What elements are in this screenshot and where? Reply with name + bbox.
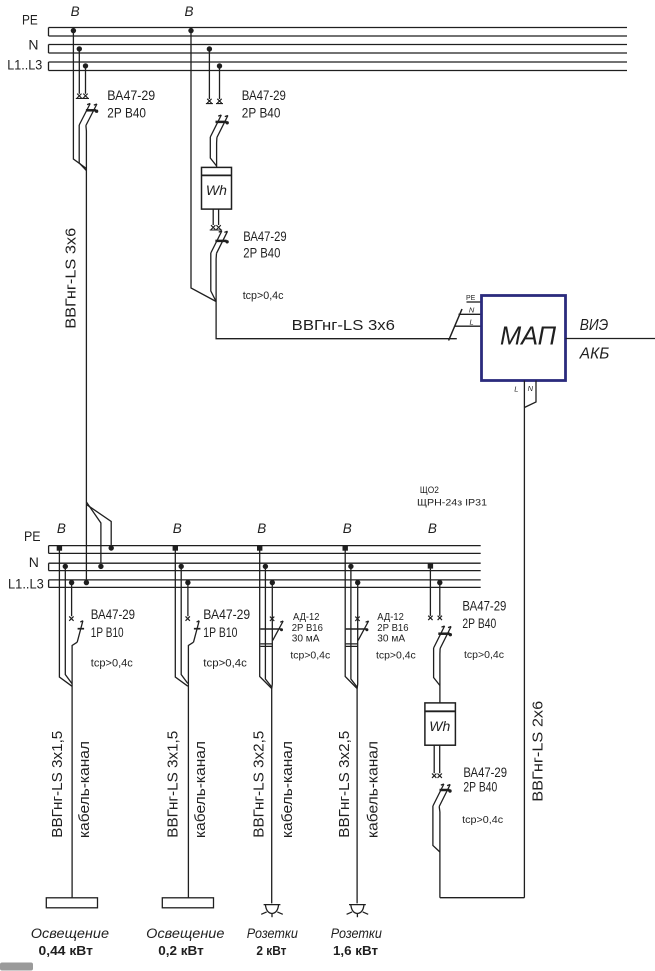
wire МАП to ВИЭ/АКБ (right) (566, 338, 655, 340)
svg-text:Розетки: Розетки (331, 925, 382, 941)
lower bus L1..L3 (double-line busbar) (49, 580, 481, 588)
wire QF9 output right / cable down (438, 807, 441, 898)
contact mark PI2 left (432, 774, 436, 778)
contact mark L drop 1 (82, 94, 89, 99)
svg-text:ВВГнг-LS 3х2,5: ВВГнг-LS 3х2,5 (251, 731, 267, 838)
wire QF3 output right (215, 253, 217, 301)
lower bus N (double-line busbar) (49, 563, 481, 570)
wire N conductor drop D (351, 566, 357, 687)
top bus L1..L3 (double-line busbar) (49, 62, 628, 71)
junction dot PE tap C (257, 545, 262, 550)
contact mark N drop 1 (76, 94, 83, 99)
junction dot L tap A (69, 580, 74, 585)
wire L stub drop A (71, 583, 73, 617)
svg-text:ВА47-29: ВА47-29 (203, 607, 250, 622)
wire N into МАП (459, 313, 482, 315)
wire QF8 output left (434, 648, 440, 686)
label Розетки 2 кВт (247, 925, 298, 958)
wire fan-out of incoming cable to lower bus (N branch) (86, 502, 101, 563)
wire L into МАП (455, 325, 482, 327)
panel label ЩО2 ЩРН-24з IP31 (417, 485, 487, 509)
cable fan-out slash at МАП input (449, 309, 462, 341)
wire L out of МАП bottom (long run to lower right) (523, 381, 525, 898)
svg-text:ВВГнг-LS 2х6: ВВГнг-LS 2х6 (530, 701, 546, 802)
wire meter output stub right (218, 209, 220, 225)
svg-text:tср>0,4с: tср>0,4с (243, 290, 284, 302)
svg-text:ВВГнг-LS 3х6: ВВГнг-LS 3х6 (292, 317, 395, 334)
label QF6 (290, 611, 330, 662)
svg-text:ЩРН-24з IР31: ЩРН-24з IР31 (417, 498, 487, 509)
contact mark L drop D (355, 617, 359, 621)
svg-text:N: N (469, 306, 475, 315)
svg-text:2Р В40: 2Р В40 (243, 246, 280, 261)
label QF4 (91, 607, 135, 670)
wire QF2 output right to meter (216, 138, 218, 168)
svg-text:N: N (29, 554, 39, 570)
wire QF1 output left (79, 125, 86, 171)
junction dot PE tap 2 (188, 28, 193, 33)
label QF2 (242, 88, 286, 121)
svg-text:L1..L3: L1..L3 (8, 575, 44, 591)
svg-text:ВА47-29: ВА47-29 (463, 765, 507, 780)
svg-text:Розетки: Розетки (247, 925, 298, 941)
svg-text:PE: PE (22, 12, 38, 28)
lower bus PE (double-line busbar) (49, 546, 481, 554)
wire QF5 output / cable to lamp (188, 642, 193, 898)
svg-text:Wh: Wh (206, 182, 227, 198)
wire QF4 output / cable to lamp (72, 642, 77, 898)
energy meter PI2 Wh (425, 703, 456, 745)
junction dot L tap 1 (83, 63, 88, 68)
svg-text:В: В (173, 521, 182, 536)
wire PE conductor drop 2 (191, 31, 216, 302)
circuit breaker QF5 ВА47-29 1Р В10 (194, 621, 201, 643)
junction dot PE tap A (57, 545, 62, 550)
circuit breaker QF8 ВА47-29 2Р В40 (434, 626, 452, 649)
svg-text:PE: PE (24, 528, 41, 544)
junction dot PE incoming (109, 545, 114, 550)
svg-text:ВВГнг-LS 3х6: ВВГнг-LS 3х6 (64, 228, 80, 329)
svg-text:1Р В10: 1Р В10 (91, 625, 124, 640)
svg-text:L: L (470, 318, 474, 327)
svg-text:L1..L3: L1..L3 (7, 57, 42, 73)
wire PE into МАП (467, 301, 482, 303)
svg-text:ВВГнг-LS 3х1,5: ВВГнг-LS 3х1,5 (50, 731, 66, 838)
svg-text:В: В (428, 521, 437, 536)
contact mark PI2 right (438, 774, 442, 778)
svg-text:2Р В40: 2Р В40 (107, 106, 146, 121)
wire L stub drop E (439, 583, 441, 616)
svg-text:В: В (185, 4, 194, 19)
junction dot N tap C (263, 564, 268, 569)
wire bottom run to МАП line (440, 897, 525, 899)
label QF9 (462, 765, 507, 826)
wire N conductor drop B (181, 566, 188, 683)
wire L conductor drop C (271, 583, 274, 904)
wire N out of МАП bottom (524, 381, 536, 408)
junction dot L tap B (185, 580, 190, 585)
lamp load EL2 (162, 898, 213, 908)
junction dot N tap A (63, 564, 68, 569)
wire PE conductor drop C (260, 548, 272, 689)
wire L of incoming cable to lower bus (85, 503, 87, 580)
lamp load EL1 (46, 898, 97, 908)
svg-text:PE: PE (466, 295, 476, 302)
contact mark meter right (215, 225, 222, 230)
svg-text:1Р В10: 1Р В10 (203, 625, 237, 640)
svg-text:0,2 кВт: 0,2 кВт (158, 944, 204, 958)
label QF1 (107, 88, 155, 121)
svg-text:L: L (514, 385, 518, 394)
svg-text:ВА47-29: ВА47-29 (242, 88, 286, 103)
svg-text:tср>0,4с: tср>0,4с (462, 814, 503, 826)
wire PE conductor drop D (345, 548, 357, 689)
wire meter PI2 stub right (439, 745, 441, 773)
wire L stub drop 2 (219, 66, 221, 99)
wire meter PI2 stub left (433, 745, 435, 773)
svg-text:2 кВт: 2 кВт (256, 944, 286, 958)
svg-text:N: N (528, 384, 534, 393)
svg-text:Освещение: Освещение (146, 925, 224, 941)
junction dot PE tap D (343, 545, 348, 550)
wire PE conductor drop 1 (73, 31, 86, 169)
svg-text:кабель-канал: кабель-канал (77, 741, 93, 838)
junction dot N tap B (179, 564, 184, 569)
wire N conductor drop A (65, 566, 72, 683)
label QF5 (203, 607, 250, 670)
circuit breaker QF4 ВА47-29 1Р В10 (77, 621, 84, 643)
svg-text:2Р В40: 2Р В40 (242, 106, 281, 121)
inverter unit U1 МАП (482, 296, 566, 381)
junction dot N tap E (428, 563, 433, 568)
lower bus labels (8, 528, 44, 592)
svg-text:ВИЭ: ВИЭ (580, 317, 608, 334)
wire N stub drop 1 (78, 49, 80, 94)
svg-text:Освещение: Освещение (31, 925, 109, 941)
RCBO QF7 АД-12 (diff. breaker symbol) (346, 621, 369, 646)
contact mark L drop B (186, 616, 190, 620)
wire L stub drop 1 (85, 66, 87, 94)
svg-text:tср>0,4с: tср>0,4с (290, 650, 330, 662)
junction dot PE tap B (173, 545, 178, 550)
wire QF1 output right / cable ВВГнг-LS 3х6 down (85, 126, 88, 504)
wire N conductor drop C (265, 566, 271, 687)
svg-text:МАП: МАП (500, 321, 556, 351)
wire meter output stub left (212, 209, 214, 225)
circuit breaker QF9 ВА47-29 2Р В40 (433, 784, 452, 807)
contact mark L drop 2 (216, 99, 223, 104)
energy meter PI1 Wh (202, 167, 232, 209)
junction dot L tap E (437, 580, 442, 585)
wire PE conductor drop A (59, 548, 72, 686)
top bus labels (7, 12, 42, 73)
svg-text:ЩО2: ЩО2 (420, 485, 439, 496)
junction dot N tap 2 (207, 46, 212, 51)
junction dot N tap 1 (77, 46, 82, 51)
socket load XS2 (347, 905, 369, 918)
svg-text:tср>0,4с: tср>0,4с (464, 649, 504, 661)
label QF8 (462, 599, 506, 662)
wire PE conductor drop B (175, 548, 188, 686)
svg-text:N: N (28, 36, 38, 52)
contact mark L drop A (69, 616, 73, 620)
wire cable to МАП (corner) (216, 302, 457, 339)
contact mark N drop 2 (206, 99, 213, 104)
svg-text:В: В (71, 4, 80, 19)
svg-text:кабель-канал: кабель-канал (280, 741, 296, 838)
wire N stub drop E (429, 566, 431, 616)
svg-text:ВВГнг-LS 3х1,5: ВВГнг-LS 3х1,5 (166, 731, 182, 838)
wire QF9 output left (433, 806, 440, 852)
circuit breaker QF1 ВА47-29 2Р В40 (2-pole switch symbol) (79, 104, 98, 126)
svg-text:АКБ: АКБ (579, 346, 609, 363)
wire QF8 output right to meter (439, 649, 441, 703)
junction dot L tap C (270, 580, 275, 585)
wire fan-out of incoming cable to lower bus (PE branch) (87, 505, 111, 546)
label Освещение 0,2 кВт (146, 925, 224, 958)
top bus PE (double-line busbar) (49, 28, 628, 37)
svg-text:2Р В40: 2Р В40 (462, 616, 496, 631)
svg-text:ВА47-29: ВА47-29 (462, 599, 506, 614)
label QF3 (243, 229, 287, 302)
contact mark N drop E (428, 616, 432, 620)
socket load XS1 (261, 905, 283, 918)
circuit breaker QF2 ВА47-29 2Р В40 (210, 115, 229, 138)
svg-text:кабель-канал: кабель-канал (365, 741, 381, 838)
svg-text:ВВГнг-LS 3х2,5: ВВГнг-LS 3х2,5 (337, 731, 353, 838)
junction dot PE tap 1 (71, 28, 76, 33)
svg-text:30 мА: 30 мА (377, 633, 405, 645)
label Освещение 0,44 кВт (31, 925, 109, 958)
svg-text:tср>0,4с: tср>0,4с (203, 658, 247, 670)
svg-text:1,6 кВт: 1,6 кВт (333, 944, 378, 958)
junction dot L incoming (84, 580, 89, 585)
wire L stub drop B (187, 583, 189, 617)
wire N stub drop 2 (208, 49, 210, 99)
label Розетки 1,6 кВт (331, 925, 382, 958)
wire QF2 output left (210, 137, 216, 166)
RCBO QF6 АД-12 (diff. breaker symbol) (260, 621, 283, 646)
label QF7 (376, 611, 416, 662)
svg-text:30 мА: 30 мА (292, 633, 320, 645)
svg-text:В: В (57, 521, 66, 536)
svg-text:0,44 кВт: 0,44 кВт (39, 944, 93, 958)
contact mark meter left (210, 225, 217, 230)
svg-text:Wh: Wh (429, 718, 450, 734)
junction dot L tap 2 (217, 63, 222, 68)
svg-text:В: В (343, 521, 352, 536)
scrollbar artifact bottom left (0, 963, 33, 971)
junction dot L tap D (355, 580, 360, 585)
svg-text:кабель-канал: кабель-канал (193, 741, 209, 838)
svg-text:tср>0,4с: tср>0,4с (91, 658, 133, 670)
junction dot N incoming (98, 564, 103, 569)
contact mark L drop C (270, 617, 274, 621)
svg-text:2Р В40: 2Р В40 (463, 780, 497, 795)
svg-text:ВА47-29: ВА47-29 (243, 229, 286, 244)
top bus N (double-line busbar) (49, 45, 628, 54)
svg-text:ВА47-29: ВА47-29 (91, 607, 135, 622)
contact mark L drop E (438, 616, 442, 620)
wire L conductor drop D (356, 583, 359, 904)
circuit breaker QF3 ВА47-29 2Р В40 (211, 231, 229, 253)
svg-text:В: В (257, 521, 266, 536)
wire QF3 output left (211, 253, 216, 302)
svg-text:ВА47-29: ВА47-29 (107, 88, 155, 103)
svg-text:tср>0,4с: tср>0,4с (376, 650, 416, 662)
junction dot N tap D (348, 564, 353, 569)
